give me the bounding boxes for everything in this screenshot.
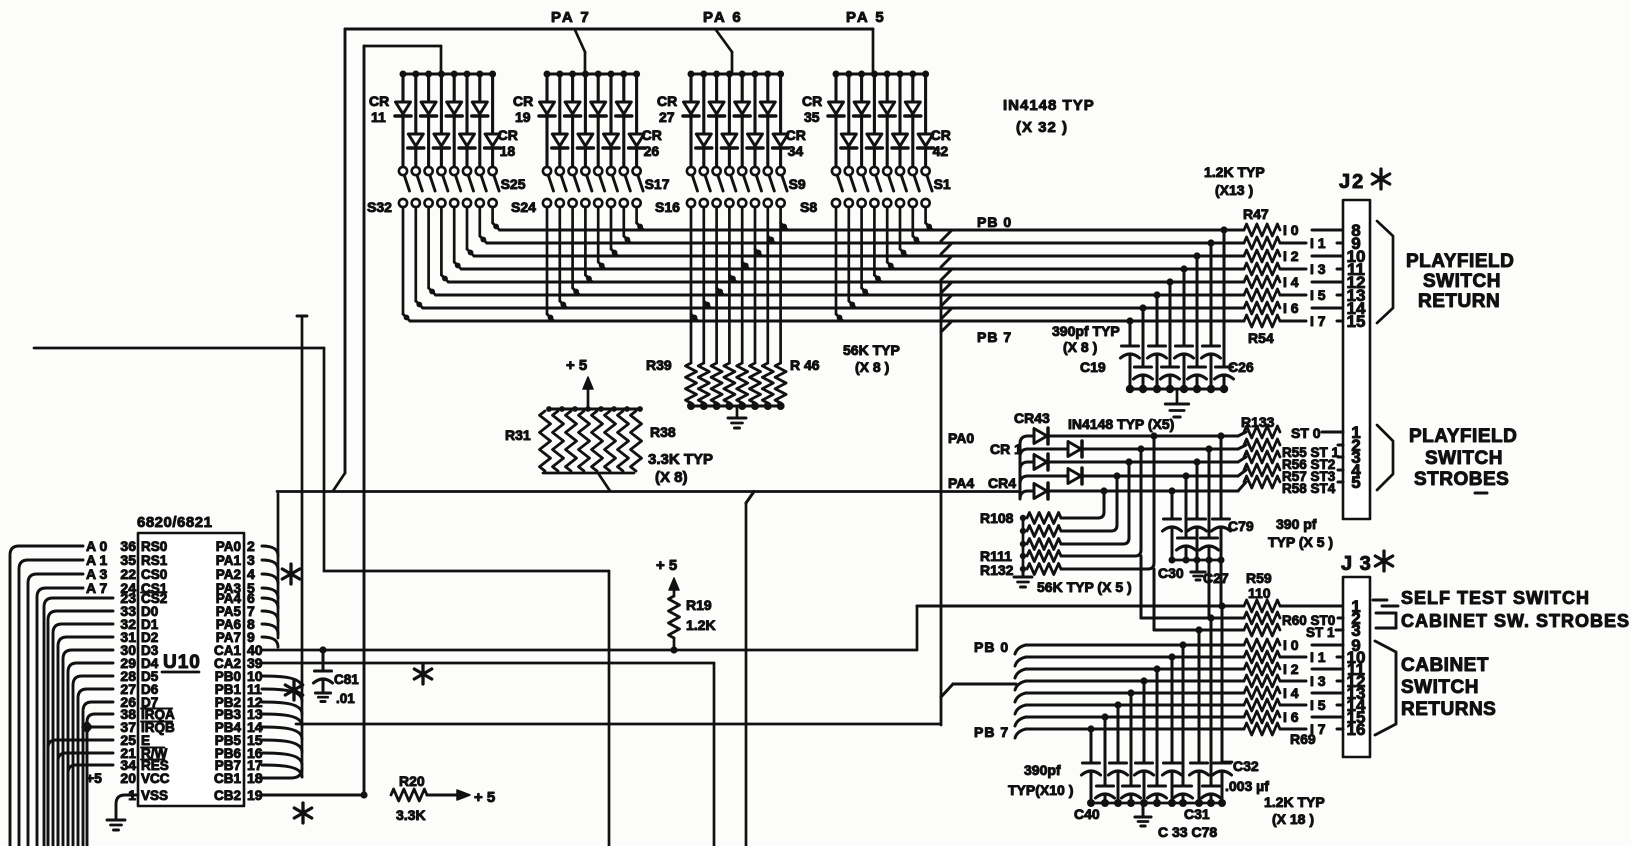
- svg-text:PLAYFIELD: PLAYFIELD: [1409, 426, 1517, 447]
- svg-text:R69: R69: [1290, 731, 1316, 747]
- svg-text:R38: R38: [650, 424, 676, 440]
- svg-text:R 46: R 46: [790, 357, 820, 373]
- svg-text:SELF TEST SWITCH: SELF TEST SWITCH: [1401, 588, 1590, 608]
- svg-text:I 1: I 1: [1310, 235, 1326, 251]
- svg-text:C 33 C78: C 33 C78: [1158, 824, 1217, 840]
- svg-text:RETURN: RETURN: [1418, 291, 1500, 312]
- svg-text:I 0: I 0: [1283, 637, 1299, 653]
- svg-text:1.2K TYP: 1.2K TYP: [1204, 164, 1265, 180]
- svg-text:TYP (X 5 ): TYP (X 5 ): [1268, 534, 1333, 550]
- svg-text:390pf: 390pf: [1024, 762, 1061, 778]
- svg-text:CR 1: CR 1: [990, 441, 1022, 457]
- svg-text:5: 5: [1351, 473, 1360, 492]
- svg-text:R39: R39: [646, 357, 672, 373]
- svg-text:U10: U10: [163, 652, 201, 673]
- svg-text:19: 19: [247, 787, 263, 803]
- svg-text:R132: R132: [980, 562, 1014, 578]
- svg-text:R19: R19: [686, 597, 712, 613]
- svg-text:(X 8 ): (X 8 ): [1063, 339, 1097, 355]
- svg-text:I 6: I 6: [1283, 709, 1299, 725]
- svg-text:ST 0: ST 0: [1291, 425, 1321, 441]
- svg-text:C19: C19: [1080, 359, 1106, 375]
- svg-text:A 7: A 7: [86, 580, 107, 596]
- svg-text:(X13 ): (X13 ): [1215, 182, 1253, 198]
- svg-text:S16: S16: [655, 199, 680, 215]
- svg-text:.003 µf: .003 µf: [1225, 778, 1269, 794]
- svg-text:ST 1: ST 1: [1306, 625, 1335, 640]
- svg-text:3.3K TYP: 3.3K TYP: [648, 451, 713, 468]
- svg-text:SWITCH: SWITCH: [1423, 271, 1501, 292]
- svg-text:CR: CR: [786, 127, 806, 143]
- svg-text:S32: S32: [367, 199, 392, 215]
- svg-text:S25: S25: [501, 176, 526, 192]
- svg-text:34: 34: [788, 143, 804, 159]
- svg-text:I 2: I 2: [1283, 661, 1299, 677]
- svg-text:CR4: CR4: [988, 475, 1016, 491]
- svg-text:PA 7: PA 7: [551, 9, 591, 26]
- svg-text:RETURNS: RETURNS: [1401, 699, 1496, 720]
- svg-text:CR: CR: [513, 93, 533, 109]
- svg-text:PA 6: PA 6: [703, 9, 743, 26]
- svg-text:390pf TYP: 390pf TYP: [1052, 323, 1120, 339]
- svg-text:CS0: CS0: [141, 567, 167, 582]
- svg-text:I 3: I 3: [1310, 673, 1326, 689]
- svg-text:R31: R31: [505, 427, 531, 443]
- svg-text:27: 27: [659, 109, 675, 125]
- svg-text:CABINET SW. STROBES: CABINET SW. STROBES: [1401, 611, 1630, 631]
- svg-text:SWITCH: SWITCH: [1425, 448, 1503, 469]
- svg-text:CR: CR: [369, 93, 389, 109]
- svg-text:18: 18: [500, 143, 516, 159]
- svg-text:I 7: I 7: [1310, 313, 1326, 329]
- svg-text:PB 7: PB 7: [977, 329, 1012, 345]
- svg-text:16: 16: [1347, 720, 1366, 739]
- svg-text:I 3: I 3: [1310, 261, 1326, 277]
- svg-text:RS1: RS1: [141, 553, 168, 568]
- svg-text:C26: C26: [1228, 359, 1254, 375]
- svg-text:S1: S1: [934, 176, 951, 192]
- svg-text:R54: R54: [1248, 330, 1274, 346]
- svg-text:+ 5: + 5: [656, 557, 677, 574]
- svg-text:18: 18: [247, 770, 263, 786]
- svg-text:I 4: I 4: [1283, 685, 1299, 701]
- svg-text:1.2K: 1.2K: [686, 617, 716, 633]
- svg-text:CR: CR: [657, 93, 677, 109]
- svg-text:I 5: I 5: [1310, 287, 1326, 303]
- svg-text:PA 5: PA 5: [846, 9, 886, 26]
- svg-text:R20: R20: [399, 773, 425, 789]
- svg-text:42: 42: [933, 143, 949, 159]
- svg-text:PA1: PA1: [216, 553, 242, 568]
- svg-text:J2: J2: [1339, 171, 1365, 193]
- svg-text:CR: CR: [931, 127, 951, 143]
- svg-text:TYP(X10 ): TYP(X10 ): [1008, 782, 1073, 798]
- svg-text:PA0: PA0: [948, 430, 974, 446]
- svg-text:I 4: I 4: [1283, 274, 1299, 290]
- svg-text:S24: S24: [511, 199, 536, 215]
- svg-text:CB1: CB1: [214, 771, 241, 786]
- svg-text:15: 15: [1347, 312, 1366, 331]
- svg-text:3.3K: 3.3K: [396, 807, 426, 823]
- svg-text:CR43: CR43: [1014, 410, 1050, 426]
- svg-text:+ 5: + 5: [474, 789, 495, 806]
- svg-text:CR: CR: [498, 127, 518, 143]
- svg-text:11: 11: [371, 109, 386, 125]
- svg-text:C32: C32: [1233, 758, 1259, 774]
- svg-text:C30: C30: [1158, 565, 1184, 581]
- svg-text:C81: C81: [334, 672, 359, 687]
- svg-text:STROBES: STROBES: [1414, 469, 1509, 490]
- svg-text:110: 110: [1248, 585, 1271, 601]
- svg-text:I 1: I 1: [1310, 649, 1326, 665]
- svg-text:VSS: VSS: [141, 788, 168, 803]
- svg-text:RS0: RS0: [141, 539, 167, 554]
- svg-text:CABINET: CABINET: [1401, 655, 1489, 676]
- svg-text:CR: CR: [642, 127, 662, 143]
- svg-text:(X 32 ): (X 32 ): [1016, 119, 1068, 136]
- svg-text:PA2: PA2: [216, 567, 241, 582]
- svg-text:IN4148 TYP (X5): IN4148 TYP (X5): [1068, 416, 1174, 432]
- svg-text:390 pf: 390 pf: [1276, 516, 1317, 532]
- svg-text:PB 7: PB 7: [974, 724, 1009, 740]
- svg-text:C31: C31: [1184, 806, 1210, 822]
- svg-text:S8: S8: [800, 199, 817, 215]
- svg-text:19: 19: [515, 109, 531, 125]
- svg-text:VCC: VCC: [141, 771, 170, 786]
- svg-text:C79: C79: [1228, 518, 1254, 534]
- svg-text:56K TYP (X 5 ): 56K TYP (X 5 ): [1037, 579, 1132, 595]
- svg-text:I 5: I 5: [1310, 697, 1326, 713]
- svg-text:S17: S17: [645, 176, 670, 192]
- svg-text:R59: R59: [1246, 570, 1272, 586]
- svg-text:PB 0: PB 0: [974, 639, 1009, 655]
- svg-text:I 2: I 2: [1283, 248, 1299, 264]
- svg-text:IN4148 TYP: IN4148 TYP: [1003, 97, 1095, 114]
- svg-text:R133: R133: [1241, 414, 1275, 430]
- svg-text:I 0: I 0: [1283, 222, 1299, 238]
- svg-text:J 3: J 3: [1341, 553, 1372, 575]
- svg-text:26: 26: [644, 143, 660, 159]
- svg-text:6820/6821: 6820/6821: [137, 514, 212, 531]
- svg-text:+ 5: + 5: [566, 357, 587, 374]
- svg-text:1.2K TYP: 1.2K TYP: [1264, 794, 1325, 810]
- svg-text:R47: R47: [1243, 206, 1269, 222]
- svg-text:20: 20: [120, 770, 136, 786]
- svg-text:(X 8 ): (X 8 ): [855, 359, 889, 375]
- svg-text:PLAYFIELD: PLAYFIELD: [1406, 251, 1514, 272]
- svg-text:R58 ST4: R58 ST4: [1282, 481, 1336, 496]
- svg-text:PA0: PA0: [216, 539, 241, 554]
- svg-text:PB 0: PB 0: [977, 214, 1012, 230]
- svg-text:C27: C27: [1203, 570, 1229, 586]
- svg-text:PA4: PA4: [948, 475, 974, 491]
- svg-text:CR: CR: [802, 93, 822, 109]
- svg-text:C40: C40: [1074, 806, 1100, 822]
- svg-text:56K TYP: 56K TYP: [843, 342, 900, 358]
- svg-text:I 6: I 6: [1283, 300, 1299, 316]
- svg-text:SWITCH: SWITCH: [1401, 677, 1479, 698]
- svg-text:(X 8): (X 8): [655, 469, 688, 486]
- svg-text:R108: R108: [980, 510, 1014, 526]
- svg-text:CB2: CB2: [214, 788, 241, 803]
- svg-text:.01: .01: [336, 691, 355, 706]
- svg-text:(X 18 ): (X 18 ): [1272, 811, 1314, 827]
- svg-text:S9: S9: [789, 176, 806, 192]
- svg-text:35: 35: [804, 109, 820, 125]
